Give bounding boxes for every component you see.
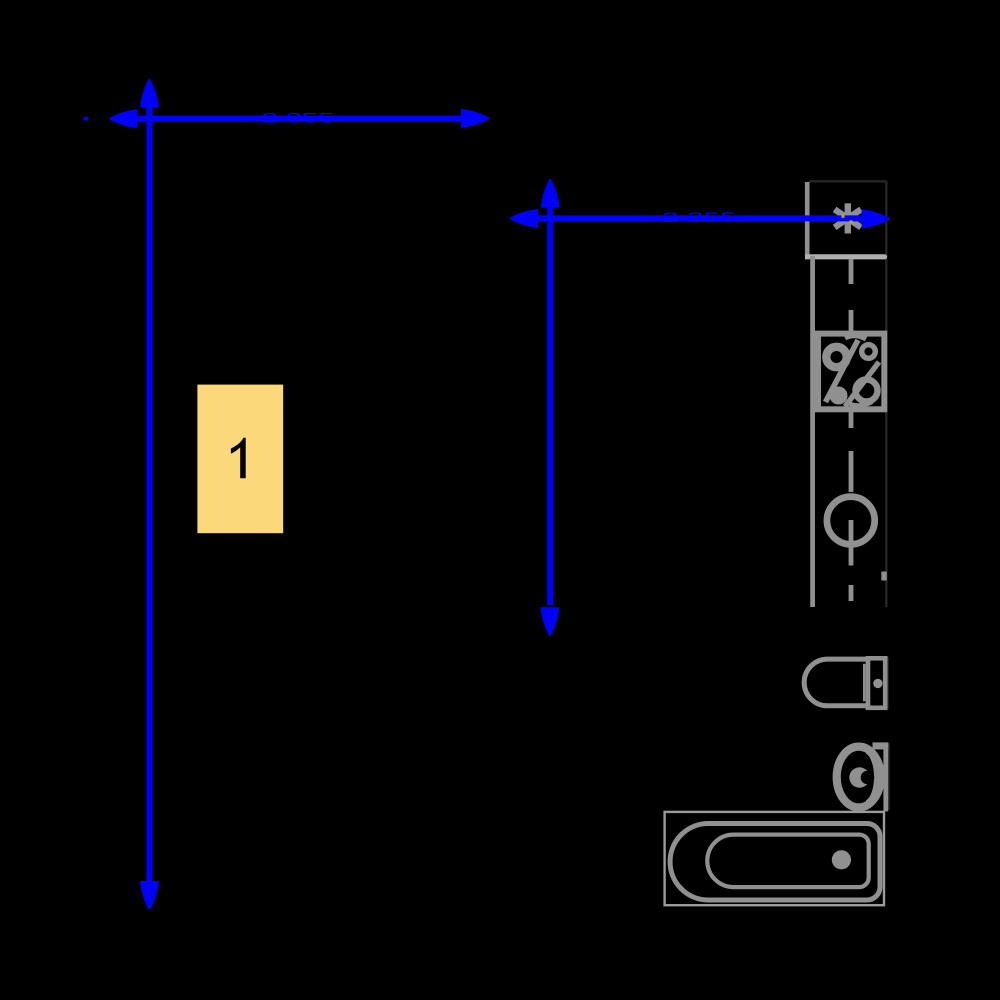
boiler asterisk symbol bbox=[835, 203, 861, 233]
counter top horizontal line bbox=[805, 254, 885, 259]
toilet bowl bbox=[804, 659, 868, 706]
svg-text:2 355: 2 355 bbox=[262, 110, 335, 125]
dimension vertical line left bbox=[140, 79, 159, 909]
wall outline (dark) right edge of counter column bbox=[885, 181, 887, 607]
dimension horizontal line top bbox=[110, 109, 489, 128]
svg-text:2 355: 2 355 bbox=[662, 210, 737, 225]
dimension tick dash far left bbox=[84, 117, 89, 121]
toilet seat line bbox=[863, 664, 866, 702]
bidet bowl ellipse bbox=[837, 747, 881, 808]
bidet drain crescent bbox=[849, 767, 869, 787]
hob burner ring top-right bbox=[862, 345, 876, 359]
round sink ring bbox=[827, 497, 875, 545]
hob bottom arc piece bbox=[850, 402, 872, 406]
dashed centerline of counter bbox=[849, 260, 854, 602]
hob top arc piece bbox=[845, 336, 866, 339]
room label 1 text bbox=[231, 438, 246, 478]
toilet tank bbox=[868, 658, 885, 708]
hob diagonal stroke 2 bbox=[845, 362, 879, 407]
room label 1 box bbox=[197, 385, 283, 534]
counter right notch bbox=[881, 572, 887, 581]
bathtub drain dot bbox=[832, 850, 851, 869]
wall outline (dark) right of toilet tank bbox=[886, 657, 888, 709]
bathtub inner outline bbox=[707, 835, 868, 888]
hob diagonal stroke 1 bbox=[826, 340, 859, 402]
wall line upper-left of boiler box bbox=[805, 182, 810, 256]
wall line lower-left of counter bbox=[810, 256, 815, 607]
bidet top connector bar bbox=[873, 742, 889, 749]
wall outline (dark) right of bidet bbox=[887, 743, 889, 810]
hob burner ring top-left bbox=[826, 347, 846, 367]
hob burner ring bottom-right bbox=[856, 380, 878, 402]
hob burner dot bottom-left bbox=[830, 387, 848, 405]
bidet right bar bbox=[883, 743, 888, 812]
bathtub middle outline bbox=[670, 824, 880, 901]
gas stove / hob square bbox=[818, 334, 884, 410]
dimension horizontal line second bbox=[510, 209, 889, 228]
bidet inner rim arc bbox=[867, 753, 876, 802]
yellow specks at asterisk bbox=[842, 215, 845, 218]
dimension vertical line second bbox=[540, 179, 559, 635]
wall outline (dark) top edge of boiler box bbox=[809, 180, 886, 182]
bathtub outer rectangle bbox=[665, 812, 884, 905]
toilet flush button bbox=[873, 679, 882, 688]
